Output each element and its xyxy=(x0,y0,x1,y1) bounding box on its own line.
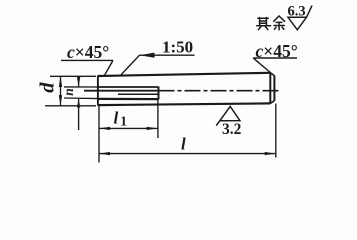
svg-text:c×45°: c×45° xyxy=(256,41,298,61)
svg-text:l: l xyxy=(181,135,186,154)
svg-text:3.2: 3.2 xyxy=(222,121,242,138)
svg-text:1:50: 1:50 xyxy=(162,37,193,56)
svg-text:6.3: 6.3 xyxy=(288,4,306,20)
svg-text:d: d xyxy=(37,82,59,93)
svg-text:c×45°: c×45° xyxy=(67,42,109,62)
svg-text:n: n xyxy=(61,88,76,96)
